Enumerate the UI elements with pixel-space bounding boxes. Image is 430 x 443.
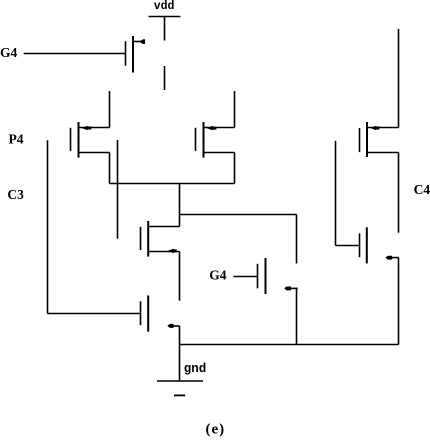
wire P4 net vertical down left side <box>47 140 49 313</box>
transistor M6 channel bar <box>265 258 267 294</box>
transistor M7 gate bar <box>359 128 361 152</box>
transistor M1 source arrow <box>139 39 145 44</box>
svg-text:vdd: vdd <box>154 0 175 13</box>
svg-text:P4: P4 <box>9 131 24 146</box>
wire M7 drain vertical from top <box>398 29 400 128</box>
wire M8 gate net vertical <box>335 141 337 246</box>
svg-text:gnd: gnd <box>184 362 207 376</box>
transistor M6 source stub <box>290 287 298 289</box>
transistor M3 drain stub <box>204 127 235 129</box>
vdd rail bar <box>149 16 181 18</box>
svg-text:G4: G4 <box>209 268 227 283</box>
wire bus drop vertical <box>179 184 181 227</box>
transistor M3 source arrow <box>207 126 213 131</box>
transistor M1 channel bar <box>132 36 134 73</box>
svg-text:(e): (e) <box>206 422 226 438</box>
wire M5 source down to gnd <box>179 326 181 381</box>
svg-text:C3: C3 <box>7 187 24 202</box>
transistor M4 channel bar <box>147 221 149 257</box>
transistor M2 gate bar <box>70 128 72 151</box>
transistor M7 drain stub <box>367 127 399 129</box>
wire gate lead of M1 from G4 <box>24 53 126 55</box>
wire M6 drain vertical from junction <box>296 215 298 264</box>
wire vdd lead upper segment <box>164 17 166 41</box>
transistor M8 gate bar <box>359 233 361 257</box>
ground bar short <box>174 394 185 396</box>
wire gate lead of M8 <box>336 245 359 247</box>
transistor M7 channel bar <box>366 122 368 157</box>
transistor M2 source stub <box>79 152 110 154</box>
svg-text:G4: G4 <box>0 45 18 60</box>
wire M7 source down <box>398 153 400 233</box>
transistor M3 gate bar <box>195 128 197 151</box>
transistor M4 gate bar <box>140 227 142 250</box>
wire M2 source down to bus <box>109 153 111 184</box>
wire gate lead of M6 <box>234 276 258 278</box>
wire M6 source down to bus <box>296 288 298 344</box>
ground bar long <box>157 380 203 382</box>
transistor M5 source arrow <box>167 324 173 328</box>
transistor M8 drain arrow <box>385 256 392 260</box>
wire vdd lead lower segment <box>164 66 166 90</box>
transistor M5 gate bar <box>140 301 142 325</box>
transistor M6 gate bar <box>257 264 259 289</box>
transistor M2 drain stub <box>79 127 110 129</box>
wire middle horizontal to right <box>180 214 297 216</box>
wire M4 source down <box>179 252 181 301</box>
transistor M2 channel bar <box>78 122 80 158</box>
wire M3 drain vertical <box>234 91 236 128</box>
transistor M6 source arrow <box>284 287 291 291</box>
wire M3 source down to bus <box>234 153 236 184</box>
svg-text:C4: C4 <box>414 182 430 197</box>
wire bottom bus horizontal <box>180 344 399 346</box>
transistor M3 channel bar <box>203 122 205 158</box>
transistor M4 source stub <box>149 251 180 253</box>
transistor M1 gate bar <box>125 41 127 66</box>
wire gate lead of M5 horizontal <box>48 313 140 315</box>
transistor M8 channel bar <box>366 227 368 263</box>
wire M2 drain vertical <box>109 91 111 128</box>
transistor M1 drain stub <box>134 41 141 43</box>
wire middle bus horizontal <box>110 183 235 185</box>
transistor M3 source stub <box>204 152 235 154</box>
transistor M5 source stub <box>173 325 180 327</box>
wire middle floating vertical (output node) <box>117 140 119 239</box>
transistor M4 source arrow <box>168 249 174 254</box>
transistor M2 source arrow <box>82 126 88 131</box>
transistor M4 drain stub <box>149 226 180 228</box>
transistor M5 channel bar <box>147 296 149 332</box>
transistor M7 source arrow <box>370 126 376 131</box>
wire M8 source down to bus <box>398 258 400 345</box>
transistor M7 source stub <box>367 152 399 154</box>
transistor M8 drain stub <box>391 257 399 259</box>
